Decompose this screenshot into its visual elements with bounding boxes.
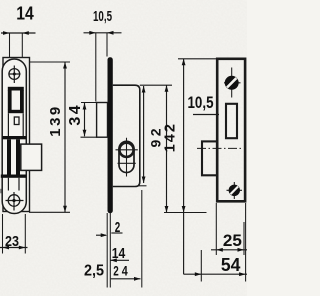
bottom screw crosshair xyxy=(227,182,243,199)
dim 142: dimension line xyxy=(166,85,168,212)
bottom screw slot xyxy=(231,187,239,195)
right view: top ext line xyxy=(178,58,217,60)
small square follower xyxy=(14,117,19,125)
top screw slot xyxy=(227,78,236,87)
lower left bar xyxy=(7,139,11,174)
dim 10,5 top: dimension line xyxy=(84,32,122,34)
svg-text:14: 14 xyxy=(16,3,34,23)
dash-dot centerline xyxy=(197,147,244,149)
dim 92 ext to case corner xyxy=(138,185,147,187)
dim 139: arrows xyxy=(63,62,67,69)
crossbar lower xyxy=(1,175,26,178)
dim 23: extension lines xyxy=(3,214,26,254)
svg-text:10,5: 10,5 xyxy=(93,9,112,25)
dim 24: underline w/ arrow xyxy=(111,278,141,280)
dim 10,5 top: extension lines xyxy=(96,33,107,102)
dim 142: arrows xyxy=(165,85,169,92)
svg-text:142: 142 xyxy=(163,122,179,152)
svg-text:92: 92 xyxy=(148,125,164,148)
dim 139: dimension line xyxy=(64,62,66,212)
svg-text:2: 2 xyxy=(115,219,121,236)
top screw crosshair xyxy=(224,68,241,98)
dim 10,5 right: underline xyxy=(193,114,219,116)
top screw head xyxy=(225,76,239,90)
strike box xyxy=(202,141,217,175)
svg-text:23: 23 xyxy=(5,234,19,250)
dim 2: underline xyxy=(111,232,122,234)
dim 14: extension lines xyxy=(10,33,23,57)
dim 25: dimension line xyxy=(211,249,247,251)
bottom screw: circle xyxy=(8,195,20,207)
bottom ext lines under faceplate bar xyxy=(107,213,110,288)
dim 142: bottom ext line xyxy=(164,212,207,214)
scan smudge left edge xyxy=(0,189,2,194)
top screw: center dot xyxy=(13,73,16,76)
latch crossbar xyxy=(8,110,24,113)
right view: height dimension line xyxy=(183,59,185,274)
dim 23: arrows xyxy=(3,246,10,250)
svg-text:139: 139 xyxy=(47,104,64,137)
lower right bar xyxy=(16,139,20,174)
bolt rectangle protruding right xyxy=(21,144,42,170)
bottom screw head xyxy=(229,185,240,196)
dim 14 bottom: underline xyxy=(110,259,129,261)
crossbar mid xyxy=(3,136,27,139)
slot cutout xyxy=(226,104,237,138)
top screw: cross lines xyxy=(9,66,21,84)
cylinder bold ring xyxy=(119,143,133,157)
faceplate with rounded ends xyxy=(2,59,26,214)
svg-text:2: 2 xyxy=(113,263,119,279)
dim 25: ext lines xyxy=(216,203,244,255)
svg-text:54: 54 xyxy=(221,255,241,275)
dim 142: top ext line xyxy=(140,84,172,86)
dim 14: arrows xyxy=(3,31,10,35)
svg-text:10,5: 10,5 xyxy=(188,93,214,112)
bottom screw: cross lines xyxy=(6,192,24,211)
dim 10,5 top: arrows xyxy=(89,31,96,35)
svg-text:4: 4 xyxy=(122,263,128,279)
dim 54: arrows xyxy=(195,272,202,276)
dim 2: leader w/ arrow xyxy=(96,234,106,236)
latch bolt side xyxy=(97,103,108,138)
lock case behind faceplate xyxy=(3,58,30,212)
dim 54: ext lines xyxy=(201,203,245,282)
right height arrows xyxy=(182,59,186,66)
dim 54: dimension line xyxy=(184,273,247,275)
latch left bar xyxy=(8,90,12,110)
svg-text:34: 34 xyxy=(67,103,84,126)
cylinder centerlines xyxy=(116,138,138,177)
plate outline (thick) xyxy=(217,59,245,202)
dim 92: dimension line xyxy=(143,86,145,183)
dim 23: dimension line xyxy=(0,247,28,249)
dim 92: arrows xyxy=(142,86,146,93)
ext line case right extended xyxy=(141,190,143,288)
latch top bar xyxy=(8,87,24,91)
dim 25: arrows xyxy=(216,248,223,252)
cylinder oval xyxy=(119,141,134,172)
channel lines xyxy=(8,113,23,136)
dim 14: dimension line xyxy=(1,32,36,34)
dim 34: arrows xyxy=(83,103,87,110)
faceplate edge-on (dark bar) xyxy=(108,57,113,213)
bottom screw: center dot xyxy=(12,199,15,202)
top screw: circle xyxy=(9,69,20,80)
latch right bar xyxy=(20,90,24,110)
svg-text:14: 14 xyxy=(112,245,126,262)
case side xyxy=(113,85,140,186)
latch edge ext lines xyxy=(81,103,97,138)
svg-text:25: 25 xyxy=(223,232,242,250)
lower channel lines xyxy=(8,178,19,191)
dim 34: dimension line xyxy=(84,103,86,136)
dim 139: extension lines xyxy=(29,62,70,212)
svg-text:2,5: 2,5 xyxy=(84,263,104,280)
